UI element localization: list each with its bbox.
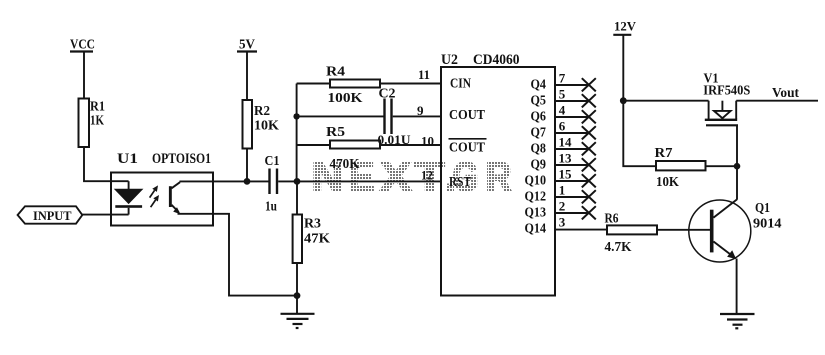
svg-text:Q6: Q6 <box>531 109 547 124</box>
no-connect X on Q8 <box>582 142 596 155</box>
wire 12V down <box>622 35 624 101</box>
svg-text:Q10: Q10 <box>525 173 547 188</box>
no-connect X on Q5 <box>582 94 596 107</box>
svg-text:Q9: Q9 <box>531 157 547 172</box>
svg-text:Vout: Vout <box>772 86 799 101</box>
svg-text:3: 3 <box>559 215 566 230</box>
COUT-bar pin name <box>449 139 487 156</box>
transistor Q1 <box>689 199 782 262</box>
wire rail to V1 source <box>623 100 708 102</box>
svg-text:1: 1 <box>559 183 566 198</box>
no-connect X on Q7 <box>582 126 596 139</box>
U2 title <box>441 52 520 68</box>
node C1-R3 <box>294 178 301 185</box>
svg-text:9: 9 <box>417 103 424 118</box>
svg-text:CD4060: CD4060 <box>473 52 520 68</box>
wire pin 2 stub Q13 <box>555 212 589 214</box>
svg-text:100K: 100K <box>328 90 364 105</box>
svg-text:RST: RST <box>449 175 472 190</box>
phototransistor of U1 <box>169 182 181 214</box>
wire opto collector rail to C1 <box>180 180 269 182</box>
transistor V1 MOSFET <box>703 71 750 126</box>
svg-text:4.7K: 4.7K <box>605 239 632 254</box>
svg-text:5V: 5V <box>239 38 255 53</box>
capacitor C2 <box>297 86 442 148</box>
svg-text:10: 10 <box>421 133 434 148</box>
svg-text:C1: C1 <box>265 154 280 169</box>
IC U2 CD4060 box <box>441 67 555 296</box>
node 12V rail <box>620 97 627 104</box>
svg-text:1K: 1K <box>90 113 104 128</box>
svg-text:Q8: Q8 <box>531 141 547 156</box>
svg-text:Q4: Q4 <box>531 77 547 92</box>
wire 12V to R7 <box>623 101 656 167</box>
wire pin 1 stub Q12 <box>555 196 589 198</box>
resistor R3 <box>293 181 331 295</box>
wire oscillator vertical <box>296 84 298 182</box>
svg-text:6: 6 <box>559 119 566 134</box>
wire pin 4 stub Q6 <box>555 116 589 118</box>
no-connect X on Q13 <box>582 206 596 219</box>
wire R7 to gate node <box>706 165 738 167</box>
svg-text:IRF540S: IRF540S <box>703 83 750 98</box>
svg-text:INPUT: INPUT <box>33 209 72 223</box>
no-connect X on Q4 <box>582 78 596 91</box>
svg-text:Q14: Q14 <box>525 221 547 236</box>
wire pin 6 stub Q7 <box>555 132 589 134</box>
no-connect X on Q12 <box>582 190 596 203</box>
svg-text:R2: R2 <box>254 104 270 119</box>
svg-text:13: 13 <box>559 151 573 166</box>
INPUT port <box>18 206 83 223</box>
wire opto emitter <box>178 214 298 296</box>
svg-text:470K: 470K <box>330 156 360 171</box>
wire R6 to Q1 base <box>657 229 710 231</box>
resistor R1 <box>79 99 106 148</box>
svg-text:4: 4 <box>559 103 566 118</box>
svg-text:R6: R6 <box>605 211 619 226</box>
svg-text:12: 12 <box>421 168 433 183</box>
svg-text:Q12: Q12 <box>525 189 547 204</box>
node R3 bottom <box>294 292 301 299</box>
resistor R4 <box>297 64 442 106</box>
wire R1 to LED anode <box>84 147 129 181</box>
svg-text:9014: 9014 <box>753 216 782 231</box>
svg-text:11: 11 <box>418 67 430 82</box>
optocoupler U1 labels <box>117 151 211 167</box>
wire pin 7 stub Q4 <box>555 84 589 86</box>
wire VCC to R1 <box>83 52 85 100</box>
ground left <box>281 296 315 328</box>
svg-text:OPTOISO1: OPTOISO1 <box>152 151 211 167</box>
resistor R2 <box>243 100 280 149</box>
wire INPUT to LED cathode <box>82 214 128 216</box>
svg-text:R4: R4 <box>326 64 345 79</box>
wire pin 5 stub Q5 <box>555 100 589 102</box>
svg-text:R7: R7 <box>655 146 673 161</box>
power VCC <box>70 38 95 53</box>
ground right <box>720 314 755 328</box>
no-connect X on Q6 <box>582 110 596 123</box>
svg-text:U1: U1 <box>117 151 138 167</box>
power 12V <box>613 19 636 35</box>
wire pin 15 stub Q10 <box>555 180 589 182</box>
svg-text:COUT: COUT <box>449 108 486 123</box>
svg-text:5: 5 <box>559 87 566 102</box>
optocoupler U1 box <box>111 173 213 226</box>
svg-text:U2: U2 <box>441 52 458 68</box>
wire 5V to R2 <box>246 52 248 101</box>
svg-text:10K: 10K <box>254 119 279 134</box>
wire pin 14 stub Q8 <box>555 148 589 150</box>
light arrows of U1 <box>150 185 159 207</box>
svg-text:VCC: VCC <box>70 38 95 53</box>
svg-text:R5: R5 <box>326 124 345 139</box>
wire Q14 to R6 <box>555 229 607 231</box>
capacitor C1 <box>265 154 280 215</box>
resistor R7 <box>655 146 706 189</box>
svg-text:47K: 47K <box>304 231 331 246</box>
svg-text:R1: R1 <box>90 99 105 114</box>
node osc-C2 <box>293 113 299 119</box>
resistor R5 <box>297 124 442 171</box>
svg-text:R3: R3 <box>304 216 321 231</box>
svg-text:12V: 12V <box>614 19 637 34</box>
node R2-rail <box>244 178 251 185</box>
svg-text:2: 2 <box>559 199 566 214</box>
svg-text:7: 7 <box>559 71 566 86</box>
wire Q1 emitter to ground <box>736 259 738 314</box>
wire pin 13 stub Q9 <box>555 164 589 166</box>
wire C1 to RST rail <box>278 180 441 182</box>
svg-text:10K: 10K <box>656 174 679 189</box>
wire V1 drain to Vout <box>736 100 818 102</box>
svg-text:CIN: CIN <box>450 77 471 92</box>
svg-text:1u: 1u <box>265 200 277 215</box>
svg-text:Q13: Q13 <box>525 205 547 220</box>
node gate junction <box>734 163 741 170</box>
no-connect X on Q10 <box>582 174 596 187</box>
svg-text:15: 15 <box>559 167 573 182</box>
svg-text:Q1: Q1 <box>755 200 770 215</box>
power 5V <box>237 38 257 53</box>
svg-text:COUT: COUT <box>449 140 486 155</box>
svg-text:Q7: Q7 <box>531 125 547 140</box>
LED of U1 <box>115 181 142 214</box>
wire V1 gate down <box>736 125 738 199</box>
wire R2 down to node <box>246 149 248 182</box>
no-connect X on Q9 <box>582 158 596 171</box>
svg-text:14: 14 <box>559 135 573 150</box>
svg-text:C2: C2 <box>379 86 396 101</box>
resistor R6 <box>605 211 658 255</box>
svg-text:Q5: Q5 <box>531 93 547 108</box>
